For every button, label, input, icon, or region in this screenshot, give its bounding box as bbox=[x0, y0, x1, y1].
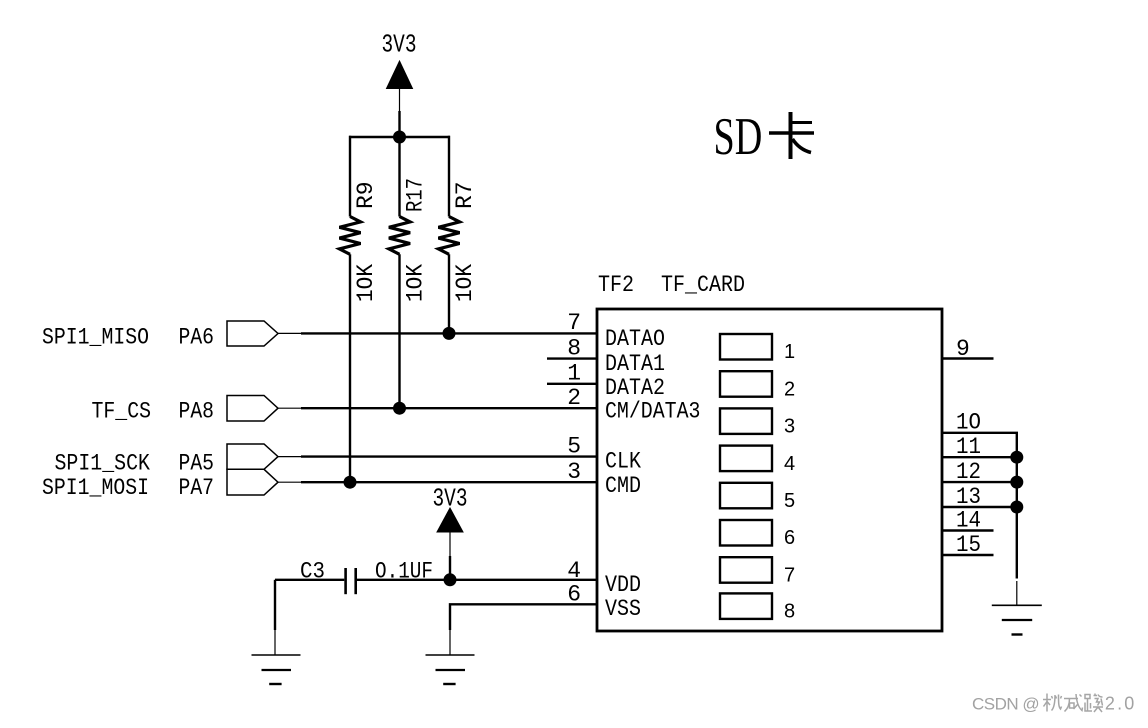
ground right symbol bbox=[992, 605, 1042, 634]
pin lead PA6 bbox=[278, 332, 301, 334]
wire SPI1_MISO to DATA0 bbox=[301, 332, 597, 334]
pin wire 12 bbox=[942, 481, 1018, 483]
svg-text:TF_CARD: TF_CARD bbox=[661, 272, 745, 298]
resistor R7 zigzag bbox=[438, 217, 459, 255]
watermark char 蹊 bbox=[1085, 694, 1103, 713]
ground left symbol bbox=[252, 655, 301, 684]
svg-text:3: 3 bbox=[784, 416, 795, 438]
svg-text:11: 11 bbox=[956, 434, 981, 460]
connector flag PA8 bbox=[227, 396, 278, 422]
capacitor C3 plates bbox=[346, 568, 356, 594]
card contact pad 6 bbox=[720, 520, 772, 546]
svg-text:R17: R17 bbox=[403, 178, 429, 212]
chip U TF2 box bbox=[597, 309, 942, 631]
svg-text:CM/DATA3: CM/DATA3 bbox=[605, 399, 701, 425]
wire R17 top lead bbox=[398, 137, 400, 217]
resistor R9 zigzag bbox=[339, 217, 360, 255]
svg-text:15: 15 bbox=[956, 532, 981, 558]
svg-text:9: 9 bbox=[956, 336, 970, 362]
watermark char 桃 bbox=[1043, 694, 1062, 712]
svg-text:1: 1 bbox=[567, 361, 581, 387]
pin wire 11 bbox=[942, 456, 1018, 458]
svg-text:5: 5 bbox=[567, 434, 581, 460]
svg-text:SPI1_MISO: SPI1_MISO bbox=[42, 325, 149, 351]
svg-text:TF_CS: TF_CS bbox=[92, 399, 152, 425]
svg-text:R7: R7 bbox=[452, 181, 478, 209]
power symbol 3V3 lower arrow bbox=[437, 508, 463, 532]
svg-text:2: 2 bbox=[784, 378, 795, 400]
title SD卡 text SD bbox=[714, 107, 763, 166]
wire SPI1_MOSI to CMD bbox=[301, 481, 597, 483]
wire C3 ground drop bbox=[274, 580, 276, 630]
wire R9 bottom lead bbox=[349, 254, 351, 482]
ground middle symbol bbox=[426, 655, 475, 684]
pin wire 10 bbox=[942, 432, 1018, 434]
junction pin 11 bbox=[1010, 451, 1023, 464]
card contact pad 2 bbox=[720, 371, 772, 397]
pin wire 14 bbox=[942, 529, 994, 531]
ground middle stem bbox=[449, 630, 451, 655]
junction 3V3 on VDD wire bbox=[444, 573, 457, 586]
wire SPI1_SCK to CLK bbox=[301, 455, 597, 457]
wire R9 top lead bbox=[349, 136, 351, 217]
connector flag PA6 bbox=[227, 321, 278, 346]
watermark char 成 bbox=[1064, 694, 1083, 712]
svg-text:2.0: 2.0 bbox=[1105, 694, 1137, 714]
svg-text:DATA2: DATA2 bbox=[605, 375, 665, 401]
pin lead PA8 bbox=[278, 407, 301, 409]
svg-text:SPI1_SCK: SPI1_SCK bbox=[55, 451, 151, 477]
pin lead PA7 bbox=[278, 481, 301, 483]
power symbol 3V3 lower stem bbox=[449, 532, 451, 557]
resistor R17 zigzag bbox=[389, 217, 410, 255]
svg-text:1: 1 bbox=[784, 341, 795, 363]
junction pin 12 bbox=[1010, 476, 1023, 489]
svg-text:1OK: 1OK bbox=[403, 264, 429, 302]
card contact pad 4 bbox=[720, 446, 772, 472]
wire power stem to bus bbox=[398, 111, 400, 137]
junction R17 on TF_CS wire bbox=[393, 402, 406, 415]
svg-text:R9: R9 bbox=[353, 181, 379, 209]
svg-text:SD: SD bbox=[714, 107, 763, 166]
svg-text:2: 2 bbox=[567, 385, 581, 411]
pin stub 8 bbox=[547, 357, 597, 359]
svg-text:CLK: CLK bbox=[605, 449, 641, 475]
svg-text:8: 8 bbox=[784, 601, 795, 623]
svg-text:1O: 1O bbox=[956, 410, 981, 436]
ground right stem bbox=[1016, 581, 1018, 605]
wire R7 top lead bbox=[448, 136, 450, 217]
wire right bus vertical bbox=[1016, 433, 1018, 579]
svg-text:1OK: 1OK bbox=[353, 264, 379, 302]
svg-text:4: 4 bbox=[784, 453, 795, 475]
junction power bus node bbox=[393, 131, 406, 144]
svg-text:13: 13 bbox=[956, 484, 981, 510]
svg-text:PA7: PA7 bbox=[179, 475, 215, 501]
svg-text:VDD: VDD bbox=[605, 572, 641, 598]
title SD卡 char 卡 bbox=[769, 112, 814, 159]
wire pull-up bus horizontal bbox=[349, 136, 450, 138]
junction R9 on MOSI wire bbox=[344, 476, 357, 489]
svg-text:1OK: 1OK bbox=[452, 264, 478, 302]
connector flag PA7 bbox=[227, 469, 278, 495]
ground left stem bbox=[274, 630, 276, 655]
svg-text:7: 7 bbox=[567, 310, 581, 336]
pin wire 15 bbox=[942, 554, 994, 556]
svg-text:12: 12 bbox=[956, 459, 981, 485]
pin stub 1 bbox=[547, 383, 597, 385]
wire VDD left segment bbox=[275, 579, 344, 581]
pin lead PA5 bbox=[278, 456, 301, 458]
svg-text:3: 3 bbox=[567, 459, 581, 485]
junction pin 13 bbox=[1010, 501, 1023, 514]
svg-text:DATA1: DATA1 bbox=[605, 351, 665, 377]
svg-text:7: 7 bbox=[784, 564, 795, 586]
pin wire 9 bbox=[942, 357, 994, 359]
svg-text:SPI1_MOSI: SPI1_MOSI bbox=[42, 475, 149, 501]
wire R17 bottom lead bbox=[398, 254, 400, 408]
pin wire 13 bbox=[942, 506, 1018, 508]
svg-text:14: 14 bbox=[956, 508, 981, 534]
svg-text:CSDN @: CSDN @ bbox=[972, 695, 1039, 714]
card contact pad 5 bbox=[720, 483, 772, 509]
svg-text:5: 5 bbox=[784, 490, 795, 512]
svg-text:VSS: VSS bbox=[605, 596, 641, 622]
wire VSS to ground bbox=[450, 604, 597, 630]
svg-text:DATAO: DATAO bbox=[605, 326, 665, 352]
svg-text:PA8: PA8 bbox=[179, 399, 215, 425]
svg-text:CMD: CMD bbox=[605, 473, 641, 499]
power symbol 3V3 top arrow bbox=[387, 61, 413, 89]
card contact pad 8 bbox=[720, 593, 772, 619]
svg-text:TF2: TF2 bbox=[598, 272, 634, 298]
wire R7 bottom lead bbox=[448, 254, 450, 333]
junction R7 on MISO wire bbox=[443, 327, 456, 340]
svg-text:PA6: PA6 bbox=[179, 325, 215, 351]
card contact pad 7 bbox=[720, 557, 772, 583]
connector flag PA5 bbox=[227, 444, 278, 469]
svg-text:PA5: PA5 bbox=[179, 451, 215, 477]
power symbol 3V3 top stem bbox=[399, 89, 401, 113]
card contact pad 1 bbox=[720, 334, 772, 360]
card contact pad 3 bbox=[720, 408, 772, 434]
wire TF_CS to CM/DATA3 bbox=[301, 407, 597, 409]
svg-text:8: 8 bbox=[567, 336, 581, 362]
wire C3 to VDD pin bbox=[357, 579, 597, 581]
svg-text:3V3: 3V3 bbox=[382, 30, 417, 60]
svg-text:6: 6 bbox=[784, 527, 795, 549]
wire 3V3 lower to VDD bbox=[449, 556, 451, 580]
